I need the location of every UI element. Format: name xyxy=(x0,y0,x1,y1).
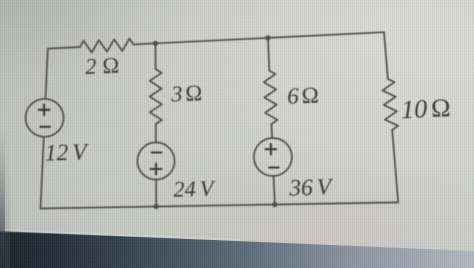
wire: top-left corner to 2-ohm resistor xyxy=(48,47,80,49)
voltage source V1 12V (circle) xyxy=(26,99,64,137)
wire: 6-ohm resistor to 36V source xyxy=(271,124,274,138)
wire: 2-ohm resistor to node A xyxy=(134,43,156,44)
12V source plus terminal mark xyxy=(39,104,50,115)
dark left edge of photo xyxy=(0,0,10,268)
wire: 3-ohm resistor to 24V source xyxy=(155,124,157,142)
resistor R3 6-ohm (zigzag) xyxy=(264,71,278,125)
wire: node B down to 6-ohm resistor xyxy=(268,38,269,71)
36V source minus terminal mark xyxy=(269,166,279,168)
junction node (bottom, 24V branch) xyxy=(154,204,159,209)
resistor R1 2-ohm (zigzag) xyxy=(80,39,134,53)
wire: 36V source to bottom node xyxy=(274,176,275,205)
junction node (bottom, 36V branch) xyxy=(272,202,277,207)
voltage source V3 36V (circle) xyxy=(254,138,292,176)
resistor R2 3-ohm (zigzag) xyxy=(150,69,162,124)
wire: 12V source down to bottom-left corner xyxy=(41,137,44,209)
36V source plus terminal mark xyxy=(266,144,277,155)
resistor R4 10-ohm (zigzag) xyxy=(383,79,399,130)
12V source minus terminal mark xyxy=(40,126,50,128)
wire: bottom 36V node to bottom-right corner xyxy=(275,202,398,204)
wire: top-right corner down to 10-ohm resistor xyxy=(384,32,388,79)
junction node A (top, 3-ohm branch) xyxy=(153,41,158,46)
wire: bottom 24V node to bottom 36V node xyxy=(156,205,275,207)
wire: 24V source to bottom node xyxy=(155,180,157,207)
24V source plus terminal mark xyxy=(151,164,162,175)
wire: 10-ohm resistor down to bottom-right corner xyxy=(392,130,398,202)
wire: node A to node B (top) xyxy=(156,38,269,43)
24V source minus terminal mark xyxy=(152,151,162,153)
wire: node A down to 3-ohm resistor xyxy=(155,43,157,69)
wire: node B to top-right corner xyxy=(268,32,384,38)
wire: left side, top corner down to 12V source xyxy=(46,49,48,99)
wire: bottom-left corner to bottom node of 24V xyxy=(41,207,157,209)
junction node B (top, 6-ohm branch) xyxy=(265,35,270,40)
voltage source V2 24V (circle) xyxy=(137,142,174,179)
